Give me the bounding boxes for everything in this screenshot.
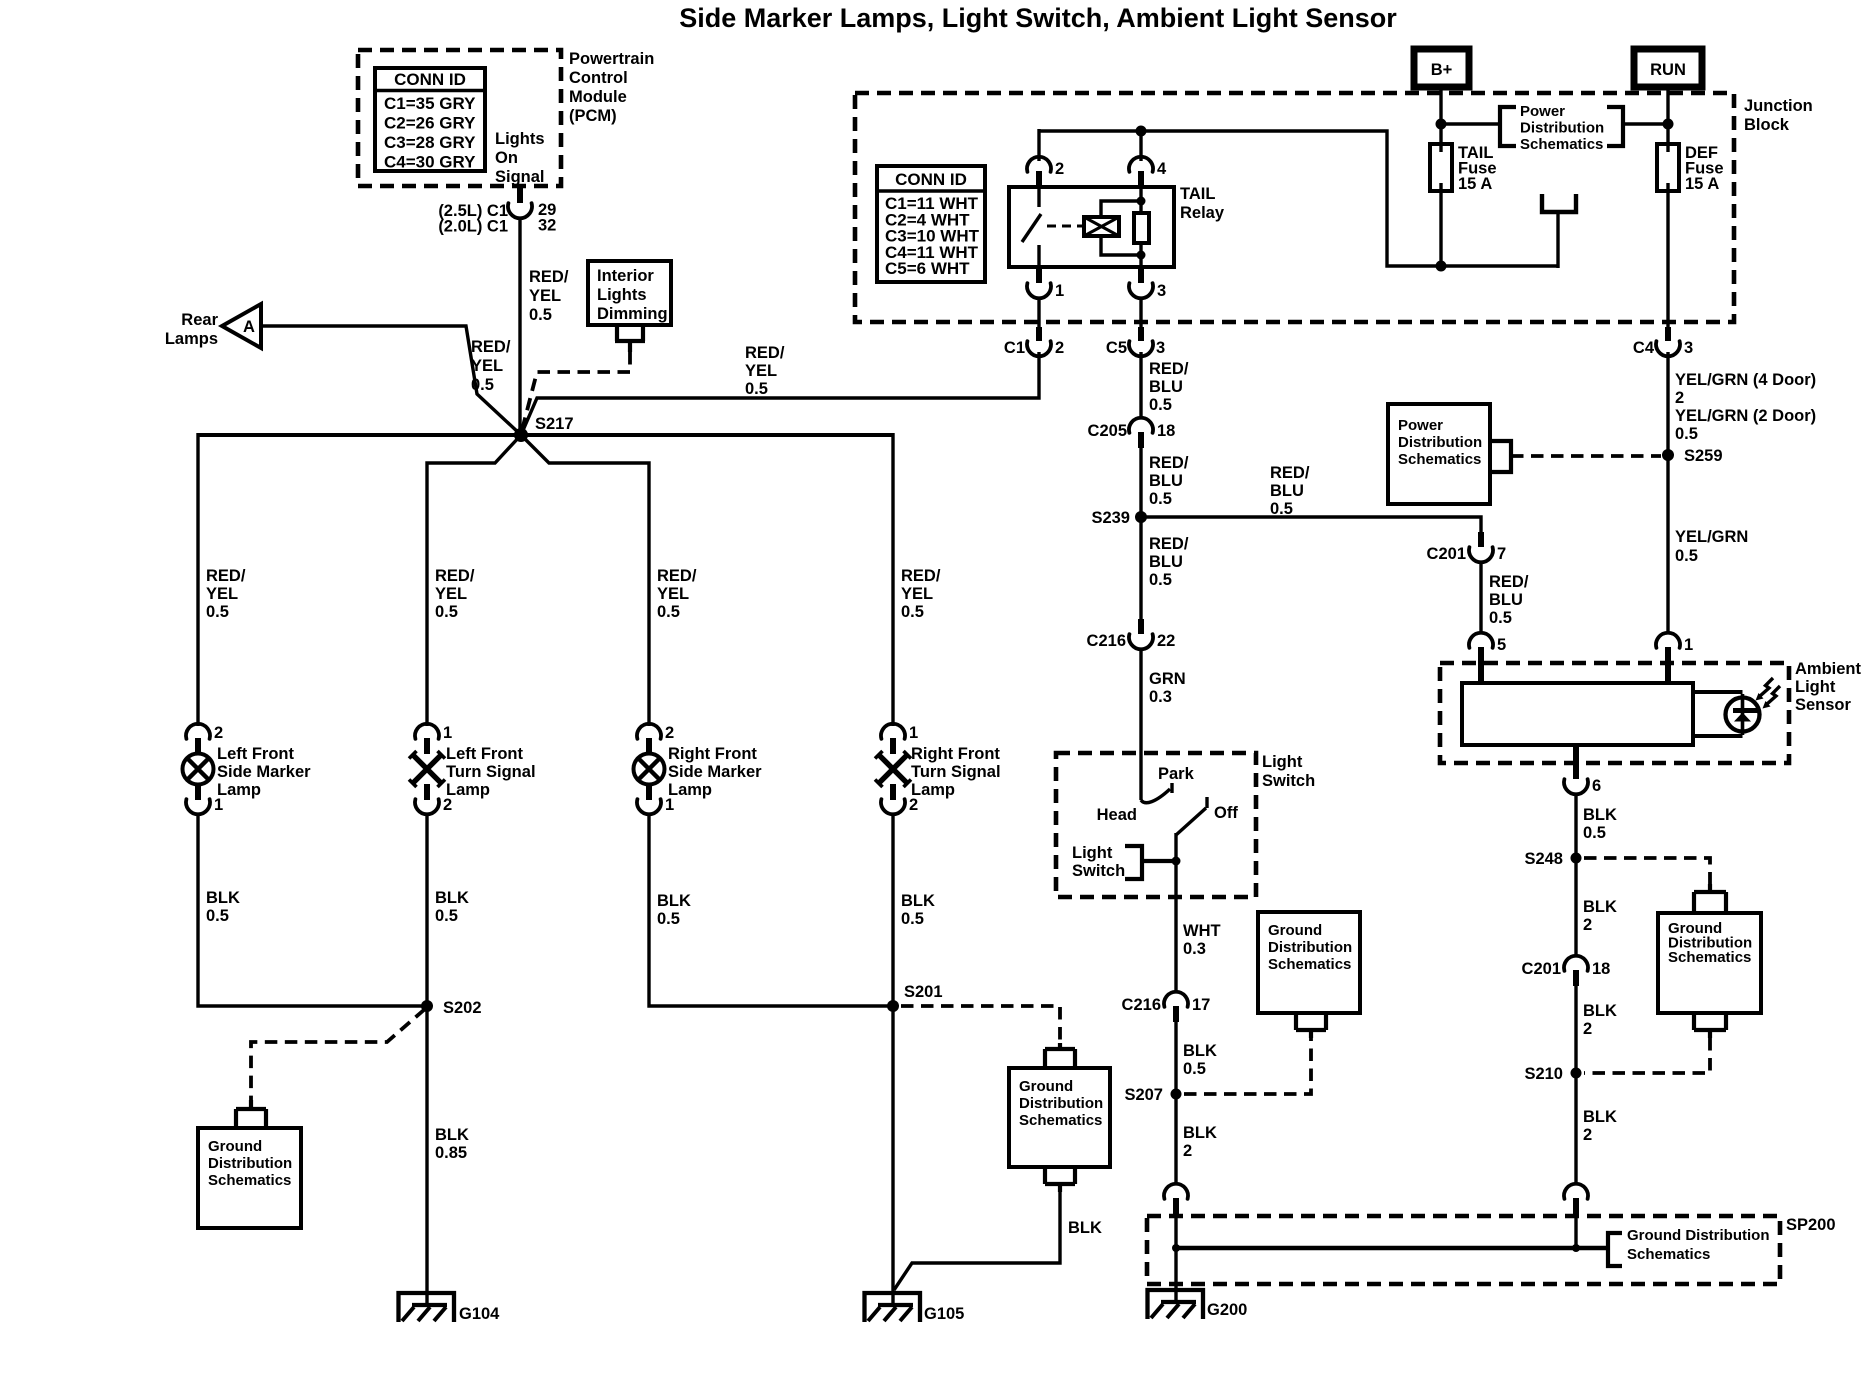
svg-text:G104: G104 xyxy=(459,1305,500,1323)
pin stub lamp 4 bottom xyxy=(890,784,896,800)
wire branch S217 to C1 (RED/YEL) xyxy=(521,352,1039,435)
dashed wire S248 to ground distribution box (right) xyxy=(1584,858,1710,886)
wire G200 drop inside SP200 xyxy=(1174,1217,1177,1302)
connector dome at lamp 4 pin 1 xyxy=(881,724,905,739)
svg-text:22: 22 xyxy=(1157,632,1175,650)
node SP200 right dot xyxy=(1572,1244,1580,1252)
wire rail 4 vertical (RED/YEL) xyxy=(891,433,894,726)
pin stub lamp 4 top xyxy=(890,738,896,754)
svg-text:S202: S202 xyxy=(443,999,482,1017)
wire C5 to C205 (RED/BLU) xyxy=(1139,352,1142,417)
wire S239 to C216 (RED/BLU) xyxy=(1139,517,1142,620)
connector dome at relay pin 4 xyxy=(1129,157,1153,172)
wire C201 pin 18 to S210 (BLK) xyxy=(1574,986,1577,1075)
wire rail 3 lower (BLK) xyxy=(649,813,888,1006)
svg-text:Off: Off xyxy=(1214,804,1238,822)
svg-text:DEFFuse15 A: DEFFuse15 A xyxy=(1685,144,1724,193)
svg-text:4: 4 xyxy=(1157,160,1167,178)
ground G200 symbol xyxy=(1148,1290,1204,1319)
bracket above ground distribution box (right) xyxy=(1694,884,1726,911)
svg-text:2: 2 xyxy=(1055,339,1064,357)
bracket light switch label to common xyxy=(1125,846,1176,879)
switch contact Off stub xyxy=(1205,797,1208,808)
svg-text:G200: G200 xyxy=(1207,1301,1247,1319)
bracket below ground distribution box (right) xyxy=(1694,1013,1726,1038)
svg-text:CONN ID: CONN ID xyxy=(895,170,967,189)
svg-text:2: 2 xyxy=(1055,160,1064,178)
wire relay pin 1 to C1 xyxy=(1037,297,1040,328)
wire S248 to C201 pin 18 (BLK) xyxy=(1574,858,1577,957)
power feed RUN box xyxy=(1634,49,1702,87)
svg-text:Side Marker Lamps, Light Switc: Side Marker Lamps, Light Switch, Ambient… xyxy=(679,3,1397,33)
connector C1 cup (junction block to harness) xyxy=(1027,341,1051,356)
connector dome above SP200 (right) xyxy=(1564,1184,1588,1199)
node S201 splice dot xyxy=(887,1000,899,1012)
dashed wire S202 to ground distribution bracket xyxy=(251,1009,425,1104)
svg-text:18: 18 xyxy=(1592,960,1610,978)
wire C216 to light switch (GRN) xyxy=(1139,648,1142,800)
svg-text:1: 1 xyxy=(214,796,223,814)
pin stub C4 connector xyxy=(1665,327,1671,341)
sensor Ambient Light Sensor dashed outline xyxy=(1440,663,1789,763)
svg-text:C4: C4 xyxy=(1633,339,1655,357)
pin stub sensor pin 6 xyxy=(1573,745,1579,779)
svg-text:C201: C201 xyxy=(1522,960,1561,978)
pin stub into SP200 (right) xyxy=(1573,1198,1579,1217)
wire B+ node to power distribution bracket xyxy=(1441,122,1500,125)
svg-text:7: 7 xyxy=(1497,545,1506,563)
node S210 splice dot xyxy=(1571,1068,1582,1079)
table CONN ID (junction block) frame xyxy=(877,166,985,282)
svg-text:2: 2 xyxy=(909,796,918,814)
svg-text:A: A xyxy=(243,318,255,336)
connector dome at relay pin 2 xyxy=(1027,157,1051,172)
svg-text:2932: 2932 xyxy=(538,201,556,235)
lamp E2 Left Front Turn Signal Lamp symbol xyxy=(409,751,445,787)
ground G105 symbol xyxy=(865,1293,921,1322)
bracket right of Power Distribution Schematics (top) xyxy=(1607,107,1623,146)
pin stub C1 connector xyxy=(1036,327,1042,341)
bracket above ground distribution box (left) xyxy=(236,1100,266,1126)
svg-text:CONN ID: CONN ID xyxy=(394,70,466,89)
box Ground Distribution Schematics (middle-right) xyxy=(1258,912,1360,1013)
dashed wire Interior Lights Dimming to S217 xyxy=(521,352,630,434)
connector C201 cup (pin 7) xyxy=(1469,547,1493,562)
connector cup at lamp 1 pin 1 xyxy=(186,799,210,814)
connector cup at lamp 2 pin 2 xyxy=(415,799,439,814)
svg-text:C216: C216 xyxy=(1122,996,1161,1014)
node S239 splice dot xyxy=(1135,511,1147,523)
dashed wire S201 to ground distribution bracket (middle) xyxy=(901,1006,1060,1045)
continuation fork symbol (to other circuit) xyxy=(1542,194,1576,212)
svg-text:BLK0.85: BLK0.85 xyxy=(435,1126,469,1162)
wire C4 to ambient light sensor pin 1 (YEL/GRN) xyxy=(1666,352,1669,634)
svg-text:C201: C201 xyxy=(1427,545,1466,563)
pin stub lamp 1 top xyxy=(195,738,201,754)
svg-text:BLK: BLK xyxy=(1068,1219,1102,1237)
relay K1 TAIL Relay box xyxy=(1009,187,1174,267)
pin stub lamp 2 bottom xyxy=(424,784,430,800)
pin stub C5 connector xyxy=(1138,327,1144,341)
node SP200 left dot xyxy=(1172,1244,1180,1252)
lamp E3 Right Front Side Marker Lamp symbol xyxy=(634,754,665,785)
pin stub PCM Lights On Signal output xyxy=(517,186,523,203)
wire rail 2 S202 to G104 (BLK) xyxy=(425,1006,428,1305)
pin stub into SP200 (left) xyxy=(1173,1198,1179,1217)
svg-text:2: 2 xyxy=(443,796,452,814)
svg-text:B+: B+ xyxy=(1431,61,1453,79)
svg-text:S207: S207 xyxy=(1124,1086,1163,1104)
node junction dot at B+ feed xyxy=(1436,119,1447,130)
connector dome at lamp 2 pin 1 xyxy=(415,724,439,739)
svg-text:2: 2 xyxy=(665,724,674,742)
wire S210 to SP200 (BLK) xyxy=(1574,1073,1577,1185)
connector C205 dome xyxy=(1129,418,1153,433)
connector dome at lamp 1 pin 2 xyxy=(186,724,210,739)
wire junction block internal bus (fuse to relay) xyxy=(1039,131,1558,266)
pin stub C201 pin 7 xyxy=(1478,532,1484,547)
wire S217 lower-left branch to rail 2 xyxy=(427,435,521,726)
bracket below ground distribution box (middle) xyxy=(1045,1167,1075,1192)
switch arm (common to Off) xyxy=(1176,808,1206,835)
svg-text:C216: C216 xyxy=(1087,632,1126,650)
svg-text:S201: S201 xyxy=(904,983,943,1001)
pin stub lamp 3 top xyxy=(646,738,652,754)
wire sensor pin 6 to S248 (BLK) xyxy=(1574,793,1577,860)
wire main bus at S217 (horizontal) xyxy=(198,433,893,437)
dashed wire power distribution to S259 xyxy=(1511,454,1661,458)
svg-text:Park: Park xyxy=(1158,765,1195,783)
connector dome above G200 (left) xyxy=(1164,1184,1188,1199)
relay coil box with X xyxy=(1084,217,1119,236)
svg-text:C5: C5 xyxy=(1106,339,1127,357)
bracket right of Power Distribution Schematics box xyxy=(1490,441,1511,472)
relay coil parallel loop wires xyxy=(1101,201,1141,255)
wire S207 to G200 (BLK) xyxy=(1174,1094,1177,1185)
dashed wire ground distribution box to S210 xyxy=(1584,1038,1710,1073)
wire ground distribution box to G105 (BLK) xyxy=(894,1192,1060,1290)
node relay loop top dot xyxy=(1137,197,1146,206)
svg-text:S210: S210 xyxy=(1524,1065,1563,1083)
pin stub C216 pin 17 xyxy=(1173,1006,1179,1022)
wire relay pin 3 to C5 xyxy=(1139,297,1142,328)
node S207 splice dot xyxy=(1171,1089,1182,1100)
wire rail 2 lower (BLK) to S202 xyxy=(425,813,428,1008)
svg-text:1: 1 xyxy=(1684,636,1693,654)
switch Light Switch dashed outline xyxy=(1056,753,1256,897)
svg-text:18: 18 xyxy=(1157,422,1175,440)
svg-text:1: 1 xyxy=(443,724,452,742)
relay switch bottom stub xyxy=(1037,245,1040,267)
node junction dot at relay pin 4 tap xyxy=(1136,126,1147,137)
connector cup at lamp 3 pin 1 xyxy=(637,799,661,814)
node light switch common dot xyxy=(1172,857,1181,866)
connector C216 cup (pin 22) xyxy=(1129,634,1153,649)
bracket below ground distribution box (middle-right) xyxy=(1296,1013,1326,1038)
node S248 splice dot xyxy=(1571,853,1582,864)
splice bus bar inside SP200 xyxy=(1176,1246,1606,1251)
switch contact Park stub xyxy=(1170,783,1173,793)
relay switch arm xyxy=(1022,214,1041,242)
wire light switch to C216 pin 17 (WHT) xyxy=(1174,897,1177,993)
module Interior Lights Dimming box xyxy=(588,261,671,325)
wire C201 pin 7 to sensor pin 5 (RED/BLU) xyxy=(1479,561,1482,634)
pin stub C216 pin 22 xyxy=(1138,619,1144,634)
sensor body box xyxy=(1462,683,1693,745)
table CONN ID (PCM) header separator xyxy=(375,89,485,93)
relay coil element (vertical) xyxy=(1134,188,1149,267)
bracket SP200 to label xyxy=(1608,1233,1622,1266)
wire S217 lower-right branch to rail 3 xyxy=(521,435,649,726)
pin stub sensor pin 5 xyxy=(1478,647,1484,684)
svg-text:3: 3 xyxy=(1157,282,1166,300)
svg-text:G105: G105 xyxy=(924,1305,964,1323)
connector C1 at PCM (cup) xyxy=(508,203,532,218)
svg-text:1: 1 xyxy=(1055,282,1064,300)
svg-text:Head: Head xyxy=(1097,806,1137,824)
pin stub relay pin 4 xyxy=(1138,171,1144,188)
svg-text:C1=11 WHTC2=4 WHTC3=10 WHTC4=1: C1=11 WHTC2=4 WHTC3=10 WHTC4=11 WHTC5=6 … xyxy=(885,194,980,278)
pin stub relay pin 3 xyxy=(1138,267,1144,283)
svg-text:5: 5 xyxy=(1497,636,1506,654)
svg-text:2: 2 xyxy=(214,724,223,742)
lamp E1 Left Front Side Marker Lamp symbol xyxy=(183,754,214,785)
connector cup at sensor pin 6 xyxy=(1564,779,1588,794)
relay linkage dashed xyxy=(1047,225,1083,228)
node S259 splice dot xyxy=(1662,449,1674,461)
node S202 splice dot xyxy=(421,1000,433,1012)
module Powertrain Control Module (PCM) dashed outline xyxy=(358,50,561,186)
connector dome at sensor pin 1 xyxy=(1656,633,1680,648)
svg-text:C1: C1 xyxy=(1004,339,1025,357)
node S217 splice dot xyxy=(514,428,528,442)
fuse TAIL Fuse 15 A xyxy=(1430,144,1452,191)
pin stub sensor pin 1 xyxy=(1665,647,1671,684)
pin stub relay pin 1 xyxy=(1036,267,1042,283)
off-page connector A (Rear Lamps triangle) xyxy=(222,304,261,348)
connector C201 dome (pin 18) xyxy=(1564,956,1588,971)
connector cup at lamp 4 pin 2 xyxy=(881,799,905,814)
wire RED/YEL from PCM C1 to S217 xyxy=(518,217,521,434)
pin stub C201 pin 18 xyxy=(1573,970,1579,986)
svg-text:S239: S239 xyxy=(1091,509,1130,527)
wire DEF fuse output to C4 xyxy=(1666,191,1669,328)
wire power distribution bracket to RUN node xyxy=(1623,122,1668,125)
photodiode symbol (axis, bar and triangle) xyxy=(1733,694,1760,735)
connector cup at relay pin 1 xyxy=(1027,283,1051,298)
node junction dot at RUN feed xyxy=(1663,119,1674,130)
connector C4 cup (junction block to harness) xyxy=(1656,341,1680,356)
relay switch top stub xyxy=(1037,187,1040,207)
photodiode circle xyxy=(1726,698,1760,732)
svg-text:SP200: SP200 xyxy=(1786,1216,1836,1234)
pin stub lamp 1 bottom xyxy=(195,784,201,800)
svg-text:1: 1 xyxy=(665,796,674,814)
pin stub lamp 3 bottom xyxy=(646,784,652,800)
wire B+ to TAIL fuse xyxy=(1439,87,1442,146)
svg-text:1: 1 xyxy=(909,724,918,742)
connector C216 dome (pin 17) xyxy=(1164,992,1188,1007)
bracket below Interior Lights Dimming xyxy=(615,325,645,352)
connector dome at sensor pin 5 xyxy=(1469,633,1493,648)
wire switch common down xyxy=(1174,833,1177,897)
wire RED/YEL from rear lamps connector A to S217 xyxy=(261,326,520,434)
wire SP200 right drop to splice bar xyxy=(1574,1217,1577,1248)
svg-text:3: 3 xyxy=(1684,339,1693,357)
pin stub C205 xyxy=(1138,432,1144,448)
wire rail 4 S201 to G105 (BLK) xyxy=(891,1006,894,1305)
pin stub relay pin 2 xyxy=(1036,171,1042,188)
bracket above ground distribution box (middle) xyxy=(1045,1043,1075,1066)
fuse DEF Fuse 15 A xyxy=(1657,144,1679,191)
box Ground Distribution Schematics (right) xyxy=(1658,913,1761,1013)
wire C216 pin 17 to S207 (BLK) xyxy=(1174,1022,1177,1096)
box Ground Distribution Schematics (left) xyxy=(198,1128,301,1228)
svg-text:3: 3 xyxy=(1156,339,1165,357)
svg-text:S259: S259 xyxy=(1684,447,1723,465)
svg-text:S217: S217 xyxy=(535,415,574,433)
box Ground Distribution Schematics (middle) xyxy=(1009,1068,1110,1167)
svg-text:C1=35 GRYC2=26 GRYC3=28 GRYC4=: C1=35 GRYC2=26 GRYC3=28 GRYC4=30 GRY xyxy=(384,94,476,172)
wire C205 to S239 (RED/BLU) xyxy=(1139,448,1142,519)
svg-text:17: 17 xyxy=(1192,996,1210,1014)
wire relay pin 2 drop xyxy=(1037,129,1040,161)
wire rail 1 vertical (RED/YEL) xyxy=(196,433,199,726)
wire relay pin 4 drop xyxy=(1139,129,1142,161)
bracket left of Power Distribution Schematics (top) xyxy=(1500,107,1516,146)
power feed B+ box xyxy=(1414,49,1469,87)
svg-text:C205: C205 xyxy=(1088,422,1127,440)
node junction dot TAIL fuse output xyxy=(1436,261,1447,272)
dashed wire S207 to ground distribution box (middle-right) xyxy=(1184,1038,1311,1094)
wire rail 1 lower (BLK) xyxy=(198,813,423,1006)
ground G104 symbol xyxy=(399,1293,455,1322)
pin stub lamp 2 top xyxy=(424,738,430,754)
svg-text:S248: S248 xyxy=(1524,850,1563,868)
svg-text:RUN: RUN xyxy=(1650,61,1686,79)
wire fork symbol stem xyxy=(1556,212,1559,268)
splice pack SP200 dashed outline xyxy=(1147,1216,1780,1284)
wire rail 4 lower (BLK) to S201 xyxy=(891,813,894,1008)
connector dome at lamp 3 pin 2 xyxy=(637,724,661,739)
module Junction Block dashed outline xyxy=(855,93,1734,322)
wire TAIL fuse output down to bus xyxy=(1439,191,1442,266)
lamp E4 Right Front Turn Signal Lamp symbol xyxy=(875,751,911,787)
table CONN ID (junction block) header separator xyxy=(877,189,985,193)
wire RUN to DEF fuse xyxy=(1666,87,1669,146)
svg-text:6: 6 xyxy=(1592,777,1601,795)
svg-text:(2.5L) C1(2.0L) C1: (2.5L) C1(2.0L) C1 xyxy=(438,202,508,236)
table CONN ID (PCM) frame xyxy=(375,68,485,171)
node relay loop bottom dot xyxy=(1137,251,1146,260)
box Power Distribution Schematics (right) xyxy=(1388,404,1490,504)
svg-text:TAILFuse15 A: TAILFuse15 A xyxy=(1458,144,1497,193)
connector C5 cup (junction block to harness) xyxy=(1129,341,1153,356)
wire S239 to C201 pin 7 (RED/BLU horizontal) xyxy=(1141,517,1481,532)
light ray arrows into photodiode xyxy=(1756,678,1781,709)
connector dome at relay pin 3 xyxy=(1129,283,1153,298)
photodiode attachment frame xyxy=(1693,692,1743,736)
switch contact curve from Head wire to Park xyxy=(1141,789,1170,803)
